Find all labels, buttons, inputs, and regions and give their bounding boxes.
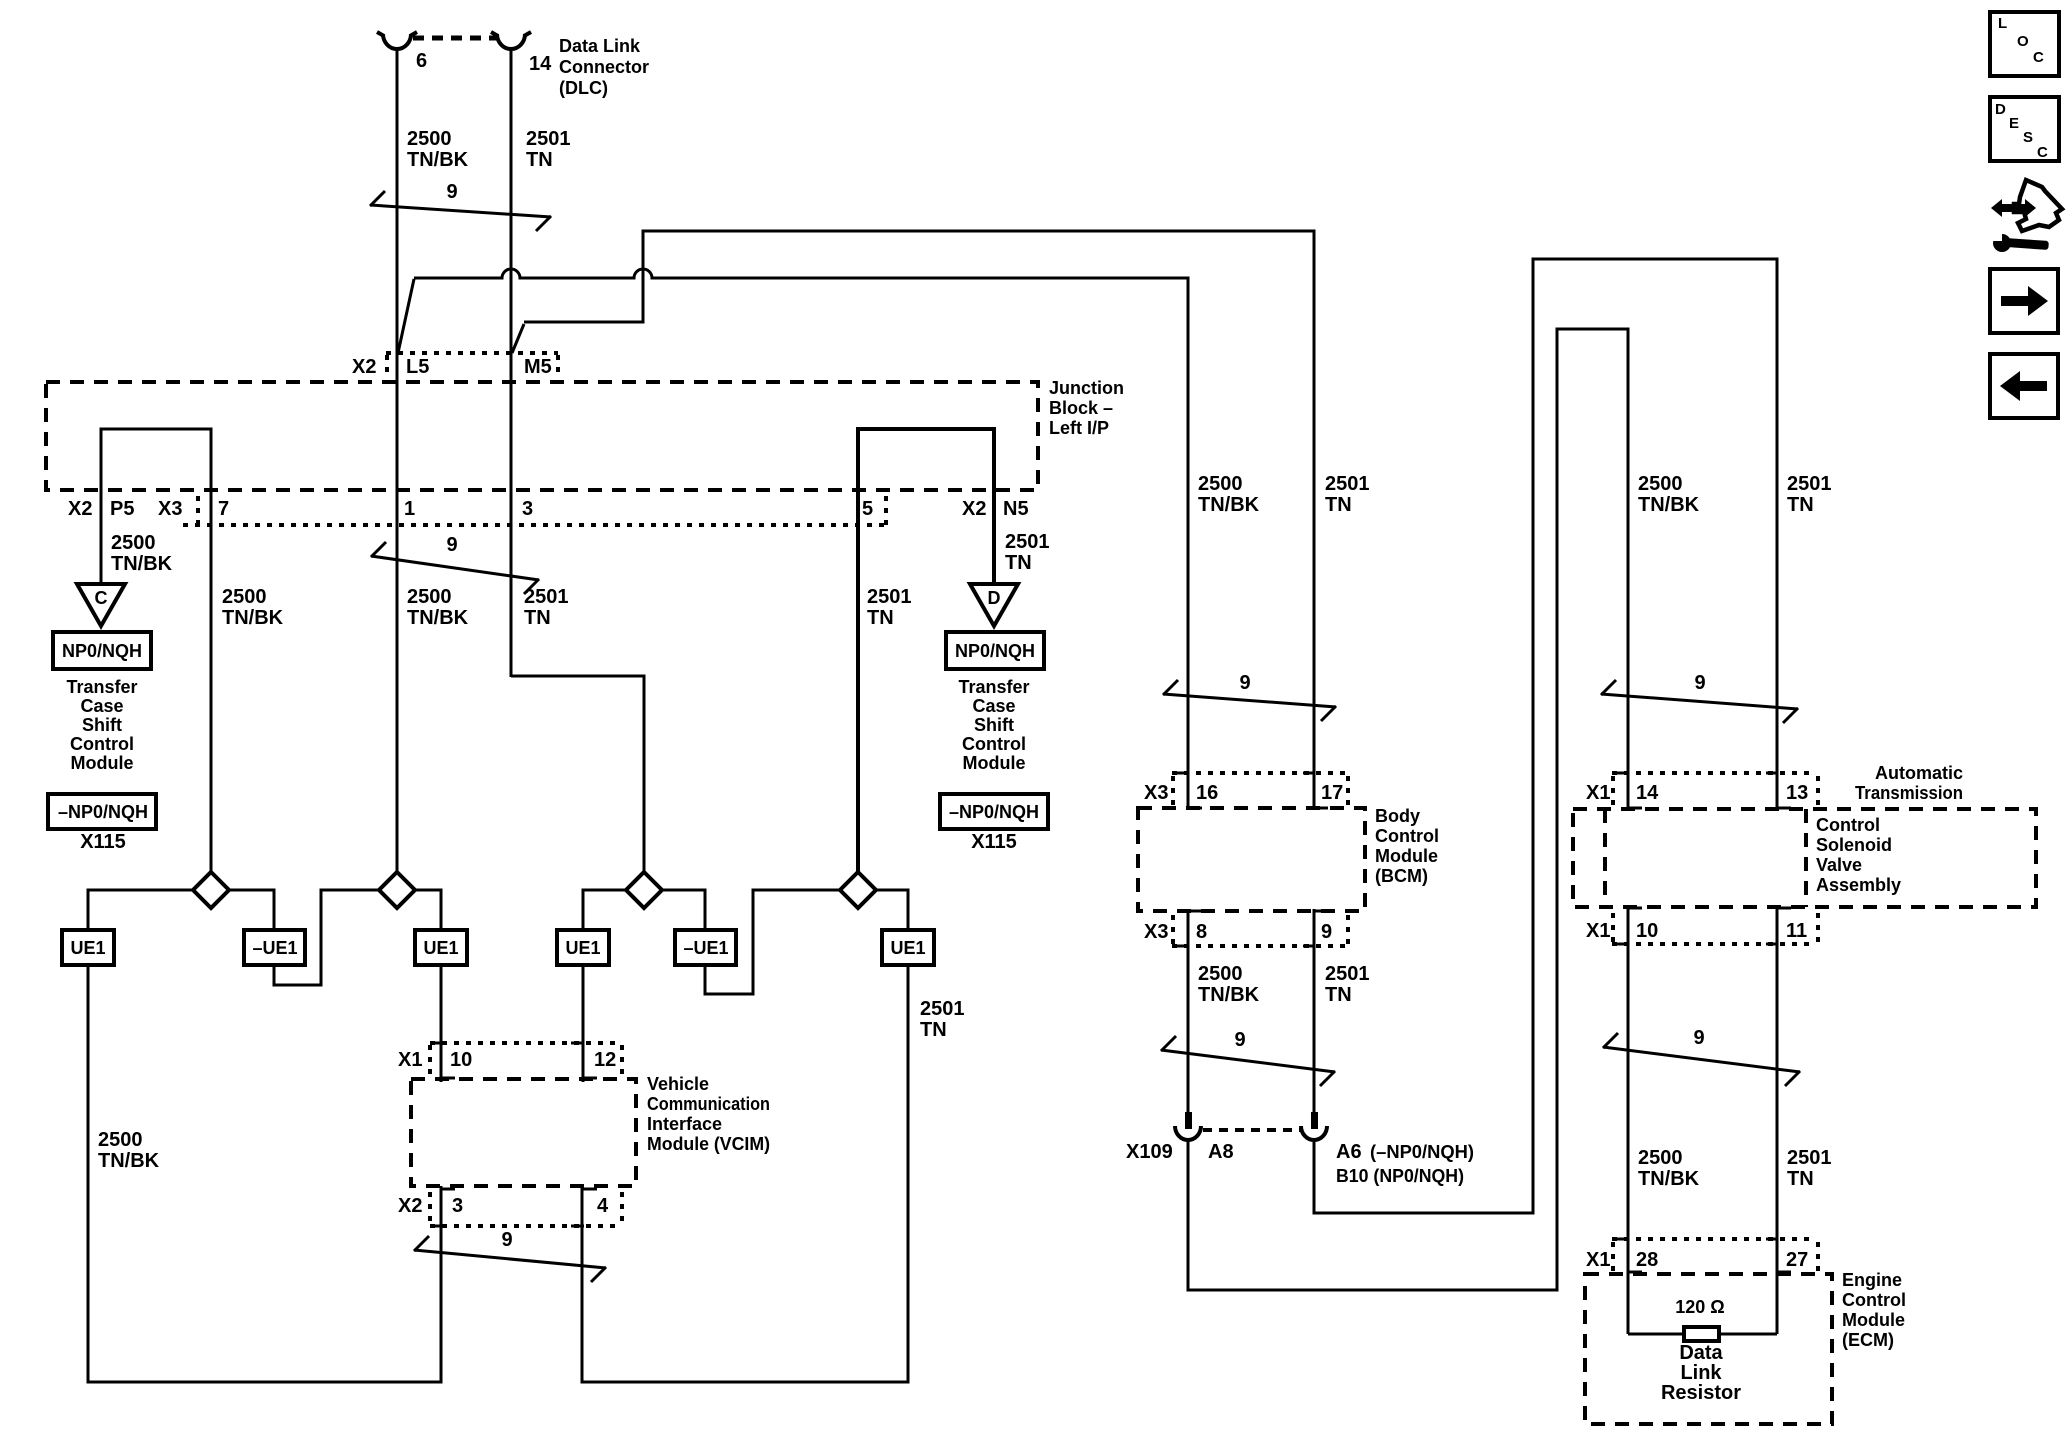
svg-text:TN/BK: TN/BK bbox=[1198, 494, 1260, 516]
resistor 120 ohm Data Link Resistor bbox=[1684, 1327, 1719, 1341]
wire UE1 down to VCIM pin 10 bbox=[440, 965, 443, 1082]
wire resistor link horizontal bbox=[1628, 1333, 1777, 1336]
svg-text:2500: 2500 bbox=[407, 128, 452, 150]
svg-text:(–NP0/NQH): (–NP0/NQH) bbox=[1370, 1142, 1474, 1162]
svg-text:1: 1 bbox=[404, 498, 415, 520]
svg-text:X2: X2 bbox=[398, 1195, 422, 1217]
wire diamond3 right branch to -UE1 bbox=[662, 890, 705, 930]
solenoid X1 14/13 connector row dotted line bbox=[1612, 771, 1815, 775]
pin tick BCM 17 bbox=[1303, 772, 1315, 775]
pin tick solenoid 13 bbox=[1766, 772, 1778, 775]
svg-text:TN: TN bbox=[1787, 494, 1814, 516]
svg-text:2501: 2501 bbox=[1787, 1147, 1832, 1169]
svg-text:Module (VCIM): Module (VCIM) bbox=[647, 1134, 770, 1154]
dotted tick X3 row right bbox=[1346, 776, 1350, 806]
wire 2500 TN/BK big left loop to VCIM pin 3 bbox=[88, 965, 441, 1382]
svg-text:Valve: Valve bbox=[1816, 855, 1862, 875]
svg-text:TN: TN bbox=[1325, 984, 1352, 1006]
svg-text:2500: 2500 bbox=[98, 1129, 143, 1151]
harness code box -NP0/NQH left bbox=[48, 794, 156, 829]
svg-text:N5: N5 bbox=[1003, 498, 1029, 520]
svg-text:Shift: Shift bbox=[82, 715, 122, 735]
svg-text:TN/BK: TN/BK bbox=[111, 553, 173, 575]
svg-text:7: 7 bbox=[218, 498, 229, 520]
svg-text:2501: 2501 bbox=[526, 128, 571, 150]
svg-text:2500: 2500 bbox=[111, 532, 156, 554]
wire pin3 jog to diamond column bbox=[511, 676, 644, 872]
VCIM X2 connector row dotted line bbox=[430, 1224, 622, 1228]
svg-text:16: 16 bbox=[1196, 782, 1218, 804]
solenoid label divider dashed vertical bbox=[1804, 809, 1808, 907]
junction inner horizontal left P5-7 bbox=[101, 429, 211, 872]
inline connector X109 A8 cup bbox=[1175, 1126, 1201, 1140]
svg-text:(ECM): (ECM) bbox=[1842, 1330, 1894, 1350]
svg-text:9: 9 bbox=[1694, 672, 1705, 694]
svg-text:2500: 2500 bbox=[1638, 473, 1683, 495]
svg-text:9: 9 bbox=[446, 181, 457, 203]
dotted tick X1 row right bbox=[620, 1045, 624, 1076]
svg-text:TN: TN bbox=[920, 1019, 947, 1041]
svg-text:9: 9 bbox=[1693, 1027, 1704, 1049]
inline connector X109 A6 cup bbox=[1301, 1126, 1327, 1140]
svg-text:C: C bbox=[2037, 144, 2048, 161]
svg-text:Module: Module bbox=[963, 753, 1026, 773]
wire diamond4 right branch to UE1 bbox=[876, 890, 908, 930]
twisted-pair note 9 crossing below VCIM bbox=[414, 1236, 606, 1282]
svg-text:3: 3 bbox=[452, 1195, 463, 1217]
svg-text:Junction: Junction bbox=[1049, 378, 1124, 398]
svg-text:8: 8 bbox=[1196, 921, 1207, 943]
dotted tick X1 lower row left bbox=[1611, 913, 1615, 942]
svg-text:Automatic: Automatic bbox=[1875, 763, 1963, 783]
svg-text:L5: L5 bbox=[406, 356, 429, 378]
svg-text:X115: X115 bbox=[971, 831, 1017, 853]
connector row X2 L5/M5 dotted line bbox=[386, 351, 558, 355]
fuse box UE1 #2 bbox=[415, 930, 467, 965]
svg-text:TN: TN bbox=[1005, 552, 1032, 574]
dotted tick ECM row left bbox=[1611, 1242, 1615, 1272]
svg-text:3: 3 bbox=[522, 498, 533, 520]
wire diamond2 right branch to UE1 bbox=[415, 890, 441, 930]
pin tick solenoid 14 bbox=[1617, 772, 1629, 775]
twisted-pair note 9 above X109 bbox=[1161, 1036, 1335, 1086]
junction block dashed box bbox=[46, 382, 1038, 490]
svg-text:Transfer: Transfer bbox=[66, 677, 137, 697]
svg-text:Module: Module bbox=[1375, 846, 1438, 866]
inline connector X109 A8 pin tick bbox=[1185, 1112, 1192, 1129]
dotted tick X1 row right bbox=[1816, 776, 1820, 806]
dotted tick X1 row left bbox=[428, 1045, 432, 1076]
svg-text:TN: TN bbox=[524, 607, 551, 629]
DLC connector dashed link bbox=[413, 36, 496, 41]
harness code box -NP0/NQH right bbox=[940, 794, 1048, 829]
pin tick VCIM 4 bbox=[571, 1225, 584, 1228]
wire -UE1 zigzag to diamond2 left bbox=[274, 890, 379, 985]
svg-text:Block –: Block – bbox=[1049, 398, 1113, 418]
svg-text:X2: X2 bbox=[962, 498, 986, 520]
svg-text:TN/BK: TN/BK bbox=[407, 607, 469, 629]
svg-text:TN/BK: TN/BK bbox=[222, 607, 284, 629]
svg-text:Transfer: Transfer bbox=[958, 677, 1029, 697]
svg-text:2501: 2501 bbox=[1005, 531, 1050, 553]
dotted tick X3 row left bbox=[1171, 776, 1175, 806]
svg-text:X1: X1 bbox=[1586, 782, 1610, 804]
svg-text:C: C bbox=[95, 588, 108, 608]
svg-text:D: D bbox=[1995, 101, 2006, 118]
svg-text:Resistor: Resistor bbox=[1661, 1382, 1741, 1404]
svg-text:TN/BK: TN/BK bbox=[1638, 494, 1700, 516]
svg-text:Control: Control bbox=[1816, 815, 1880, 835]
icon back arrow box bbox=[1990, 354, 2058, 418]
dotted tick ECM row right bbox=[1816, 1242, 1820, 1272]
label Transfer Case Shift Control Module left bbox=[66, 677, 137, 773]
svg-text:X2: X2 bbox=[68, 498, 92, 520]
svg-text:Vehicle: Vehicle bbox=[647, 1074, 709, 1094]
icon LOC box bbox=[1990, 12, 2059, 76]
wire CAN line B 2500 with hops over 2501 wire and vertical link bbox=[414, 269, 1188, 810]
wire 2501 TN from DLC pin 14 down to junction block M5 and pin 3 bbox=[510, 49, 513, 677]
wire diamond3 left branch to UE1 bbox=[583, 890, 626, 930]
svg-text:TN/BK: TN/BK bbox=[1638, 1168, 1700, 1190]
wire -UE1 zigzag to diamond4 left bbox=[705, 890, 840, 994]
dotted tick between X3 and 7 bbox=[196, 496, 200, 528]
wire 2501 TN big right loop from UE1 to VCIM pin 4 bbox=[582, 965, 908, 1382]
svg-text:NP0/NQH: NP0/NQH bbox=[955, 641, 1035, 661]
svg-text:Case: Case bbox=[80, 696, 123, 716]
wire A8 loop right and up to solenoid pin 14 feed bbox=[1188, 329, 1628, 1290]
svg-text:28: 28 bbox=[1636, 1249, 1658, 1271]
svg-text:Interface: Interface bbox=[647, 1114, 722, 1134]
wire BCM pin 9 down to X109 A6 bbox=[1313, 909, 1316, 1112]
svg-text:2501: 2501 bbox=[920, 998, 965, 1020]
wire solenoid pin 10 down to ECM pin 28 and resistor bbox=[1627, 908, 1630, 1334]
pin tick solenoid 10 bbox=[1617, 943, 1629, 946]
fuse box -UE1 #2 bbox=[675, 930, 736, 965]
svg-text:9: 9 bbox=[501, 1229, 512, 1251]
BCM dashed box bbox=[1138, 808, 1365, 911]
svg-text:A8: A8 bbox=[1208, 1141, 1234, 1163]
svg-text:X3: X3 bbox=[1144, 921, 1168, 943]
svg-text:TN/BK: TN/BK bbox=[407, 149, 469, 171]
pin tick VCIM 10 bbox=[430, 1042, 442, 1045]
svg-text:Data Link: Data Link bbox=[559, 36, 641, 56]
svg-text:2500: 2500 bbox=[222, 586, 267, 608]
svg-text:UE1: UE1 bbox=[70, 938, 105, 958]
BCM X3 8/9 connector row dotted line bbox=[1172, 944, 1352, 948]
svg-text:2501: 2501 bbox=[1325, 473, 1370, 495]
svg-text:–NP0/NQH: –NP0/NQH bbox=[58, 802, 148, 822]
twisted-pair note 9 above BCM bbox=[1163, 680, 1336, 721]
dotted tick X2 row right bbox=[620, 1192, 624, 1224]
svg-text:2500: 2500 bbox=[1198, 963, 1243, 985]
dotted tick right of pin 5 bbox=[884, 496, 888, 528]
pin tick VCIM 3 bbox=[430, 1225, 442, 1228]
inline connector X109 dashed link bbox=[1203, 1128, 1300, 1132]
pin tick solenoid 11 bbox=[1766, 943, 1778, 946]
svg-text:6: 6 bbox=[416, 50, 427, 72]
svg-text:9: 9 bbox=[446, 534, 457, 556]
BCM X3 16/17 connector row dotted line bbox=[1172, 771, 1352, 775]
svg-text:2501: 2501 bbox=[1787, 473, 1832, 495]
wire diamond1 left branch to UE1 bbox=[88, 890, 193, 930]
ECM X1 28/27 connector row dotted line bbox=[1612, 1237, 1815, 1241]
splice diamond on pin 3 wire bbox=[626, 872, 662, 908]
wire UE1 down to VCIM pin 12 bbox=[582, 965, 585, 1082]
svg-text:10: 10 bbox=[450, 1049, 472, 1071]
svg-text:Control: Control bbox=[1375, 826, 1439, 846]
svg-text:Control: Control bbox=[70, 734, 134, 754]
svg-text:O: O bbox=[2017, 33, 2029, 50]
svg-text:120 Ω: 120 Ω bbox=[1675, 1297, 1724, 1317]
svg-text:9: 9 bbox=[1239, 672, 1250, 694]
svg-text:5: 5 bbox=[862, 498, 873, 520]
junction inner horizontal right 5-N5 bbox=[858, 429, 994, 872]
svg-text:9: 9 bbox=[1321, 921, 1332, 943]
svg-text:17: 17 bbox=[1321, 782, 1343, 804]
wire 2500 TN/BK from DLC pin 6 down to junction block L5 and pin 1 to diamond bbox=[396, 49, 399, 872]
wire branch diagonal M5 pin to CAN line C bbox=[512, 324, 524, 353]
svg-text:X3: X3 bbox=[1144, 782, 1168, 804]
solenoid X1 10/11 connector row dotted line bbox=[1612, 942, 1815, 946]
svg-text:Module: Module bbox=[71, 753, 134, 773]
svg-text:Transmission: Transmission bbox=[1855, 783, 1963, 803]
svg-text:14: 14 bbox=[1636, 782, 1659, 804]
harness code box NP0/NQH left bbox=[53, 632, 151, 669]
svg-text:Body: Body bbox=[1375, 806, 1420, 826]
svg-text:–UE1: –UE1 bbox=[683, 938, 728, 958]
svg-text:TN/BK: TN/BK bbox=[1198, 984, 1260, 1006]
pin tick ECM 28 bbox=[1617, 1238, 1629, 1241]
twisted-pair note 9 crossing at DLC wires bbox=[370, 191, 551, 231]
svg-text:X1: X1 bbox=[1586, 920, 1610, 942]
twisted-pair note 9 crossing below junction bbox=[371, 542, 539, 594]
icon DESC box bbox=[1990, 97, 2059, 161]
svg-text:Link: Link bbox=[1680, 1362, 1722, 1384]
fuse box -UE1 #1 bbox=[244, 930, 305, 965]
svg-text:Data: Data bbox=[1679, 1342, 1723, 1364]
dotted tick X2 row left bbox=[428, 1192, 432, 1224]
fuse box UE1 #4 bbox=[882, 930, 934, 965]
solenoid X1 connector body dashed vertical bbox=[1603, 809, 1607, 907]
svg-text:2501: 2501 bbox=[524, 586, 569, 608]
svg-text:X109: X109 bbox=[1126, 1141, 1173, 1163]
icon forward arrow box bbox=[1990, 269, 2058, 333]
svg-text:2501: 2501 bbox=[867, 586, 912, 608]
svg-text:TN: TN bbox=[867, 607, 894, 629]
wire diamond1 right branch to -UE1 bbox=[229, 890, 274, 930]
svg-text:TN/BK: TN/BK bbox=[98, 1150, 160, 1172]
harness code box NP0/NQH right bbox=[946, 632, 1044, 669]
VCIM X1 connector row dotted line bbox=[430, 1041, 622, 1045]
svg-text:Engine: Engine bbox=[1842, 1270, 1902, 1290]
svg-text:2500: 2500 bbox=[407, 586, 452, 608]
svg-text:14: 14 bbox=[529, 53, 552, 75]
dotted tick left of L5 bbox=[385, 355, 389, 379]
svg-text:UE1: UE1 bbox=[423, 938, 458, 958]
wire solenoid pin 11 down to ECM pin 27 and resistor bbox=[1776, 908, 1779, 1334]
svg-text:Control: Control bbox=[1842, 1290, 1906, 1310]
svg-text:X1: X1 bbox=[398, 1049, 422, 1071]
svg-text:Module: Module bbox=[1842, 1310, 1905, 1330]
connector DLC pin 6 cup bbox=[383, 34, 411, 49]
svg-text:B10 (NP0/NQH): B10 (NP0/NQH) bbox=[1336, 1166, 1464, 1186]
splice diamond on pin 5 wire bbox=[840, 872, 876, 908]
pin tick ECM 27 bbox=[1766, 1238, 1778, 1241]
junction bottom connector dotted line bbox=[183, 523, 886, 527]
svg-text:4: 4 bbox=[597, 1195, 609, 1217]
svg-text:L: L bbox=[1998, 15, 2007, 32]
fuse box UE1 #3 bbox=[557, 930, 609, 965]
svg-text:Shift: Shift bbox=[974, 715, 1014, 735]
svg-text:TN: TN bbox=[526, 149, 553, 171]
wire branch diagonal L5 pin to CAN line B bbox=[398, 279, 414, 353]
svg-text:X2: X2 bbox=[352, 356, 376, 378]
control solenoid valve assembly dashed box bbox=[1573, 809, 2036, 907]
svg-text:D: D bbox=[988, 588, 1001, 608]
svg-text:E: E bbox=[2009, 115, 2019, 132]
svg-text:Solenoid: Solenoid bbox=[1816, 835, 1892, 855]
svg-text:–NP0/NQH: –NP0/NQH bbox=[949, 802, 1039, 822]
svg-text:C: C bbox=[2033, 49, 2044, 66]
svg-text:S: S bbox=[2023, 129, 2033, 146]
svg-text:X1: X1 bbox=[1586, 1249, 1610, 1271]
svg-text:M5: M5 bbox=[524, 356, 552, 378]
svg-text:Communication: Communication bbox=[647, 1094, 770, 1114]
dotted tick X1 row left bbox=[1611, 776, 1615, 806]
wire A6 loop right and up to solenoid pin 13 feed bbox=[1314, 259, 1777, 1213]
icon vehicle with double arrow and wrench bbox=[1991, 180, 2062, 252]
pin tick VCIM 12 bbox=[571, 1042, 584, 1045]
svg-text:13: 13 bbox=[1786, 782, 1808, 804]
splice diamond on pin 1 wire bbox=[379, 872, 415, 908]
off-page arrow C bbox=[77, 584, 125, 626]
svg-text:2500: 2500 bbox=[1198, 473, 1243, 495]
dotted tick right of M5 bbox=[556, 355, 560, 379]
dotted tick X1 lower row right bbox=[1816, 913, 1820, 942]
svg-text:Assembly: Assembly bbox=[1816, 875, 1901, 895]
splice diamond on pin 7 wire bbox=[193, 872, 229, 908]
wire CAN line C 2501 horizontal bbox=[524, 231, 1314, 810]
svg-text:27: 27 bbox=[1786, 1249, 1808, 1271]
VCIM dashed box bbox=[411, 1079, 636, 1186]
svg-text:Connector: Connector bbox=[559, 57, 649, 77]
svg-text:(BCM): (BCM) bbox=[1375, 866, 1428, 886]
pin tick BCM 16 bbox=[1177, 772, 1189, 775]
wire BCM pin 8 down to X109 A8 bbox=[1187, 909, 1190, 1112]
dotted tick X3 lower row left bbox=[1171, 915, 1175, 944]
svg-text:A6: A6 bbox=[1336, 1141, 1362, 1163]
svg-text:(DLC): (DLC) bbox=[559, 78, 608, 98]
dotted tick X3 lower row right bbox=[1346, 915, 1350, 944]
off-page arrow D bbox=[970, 584, 1018, 626]
pin tick BCM 8 bbox=[1177, 945, 1189, 948]
svg-text:9: 9 bbox=[1234, 1029, 1245, 1051]
svg-text:NP0/NQH: NP0/NQH bbox=[62, 641, 142, 661]
fuse box UE1 #1 bbox=[62, 930, 114, 965]
svg-text:12: 12 bbox=[594, 1049, 616, 1071]
svg-text:2500: 2500 bbox=[1638, 1147, 1683, 1169]
svg-text:TN: TN bbox=[1325, 494, 1352, 516]
svg-text:2501: 2501 bbox=[1325, 963, 1370, 985]
svg-text:X115: X115 bbox=[80, 831, 126, 853]
svg-text:P5: P5 bbox=[110, 498, 134, 520]
svg-text:10: 10 bbox=[1636, 920, 1658, 942]
twisted-pair note 9 above solenoid assembly bbox=[1601, 680, 1798, 723]
svg-text:Left I/P: Left I/P bbox=[1049, 418, 1109, 438]
label Transfer Case Shift Control Module right bbox=[958, 677, 1029, 773]
svg-text:–UE1: –UE1 bbox=[252, 938, 297, 958]
svg-text:Control: Control bbox=[962, 734, 1026, 754]
svg-text:TN: TN bbox=[1787, 1168, 1814, 1190]
inline connector X109 A6 pin tick bbox=[1311, 1112, 1318, 1129]
connector DLC pin 14 cup bbox=[497, 34, 525, 49]
svg-text:X3: X3 bbox=[158, 498, 182, 520]
svg-text:Case: Case bbox=[972, 696, 1015, 716]
pin tick BCM 9 bbox=[1303, 945, 1315, 948]
twisted-pair note 9 above ECM bbox=[1603, 1033, 1800, 1086]
svg-text:UE1: UE1 bbox=[565, 938, 600, 958]
ECM dashed box bbox=[1585, 1274, 1832, 1424]
svg-text:UE1: UE1 bbox=[890, 938, 925, 958]
svg-text:11: 11 bbox=[1786, 920, 1807, 942]
